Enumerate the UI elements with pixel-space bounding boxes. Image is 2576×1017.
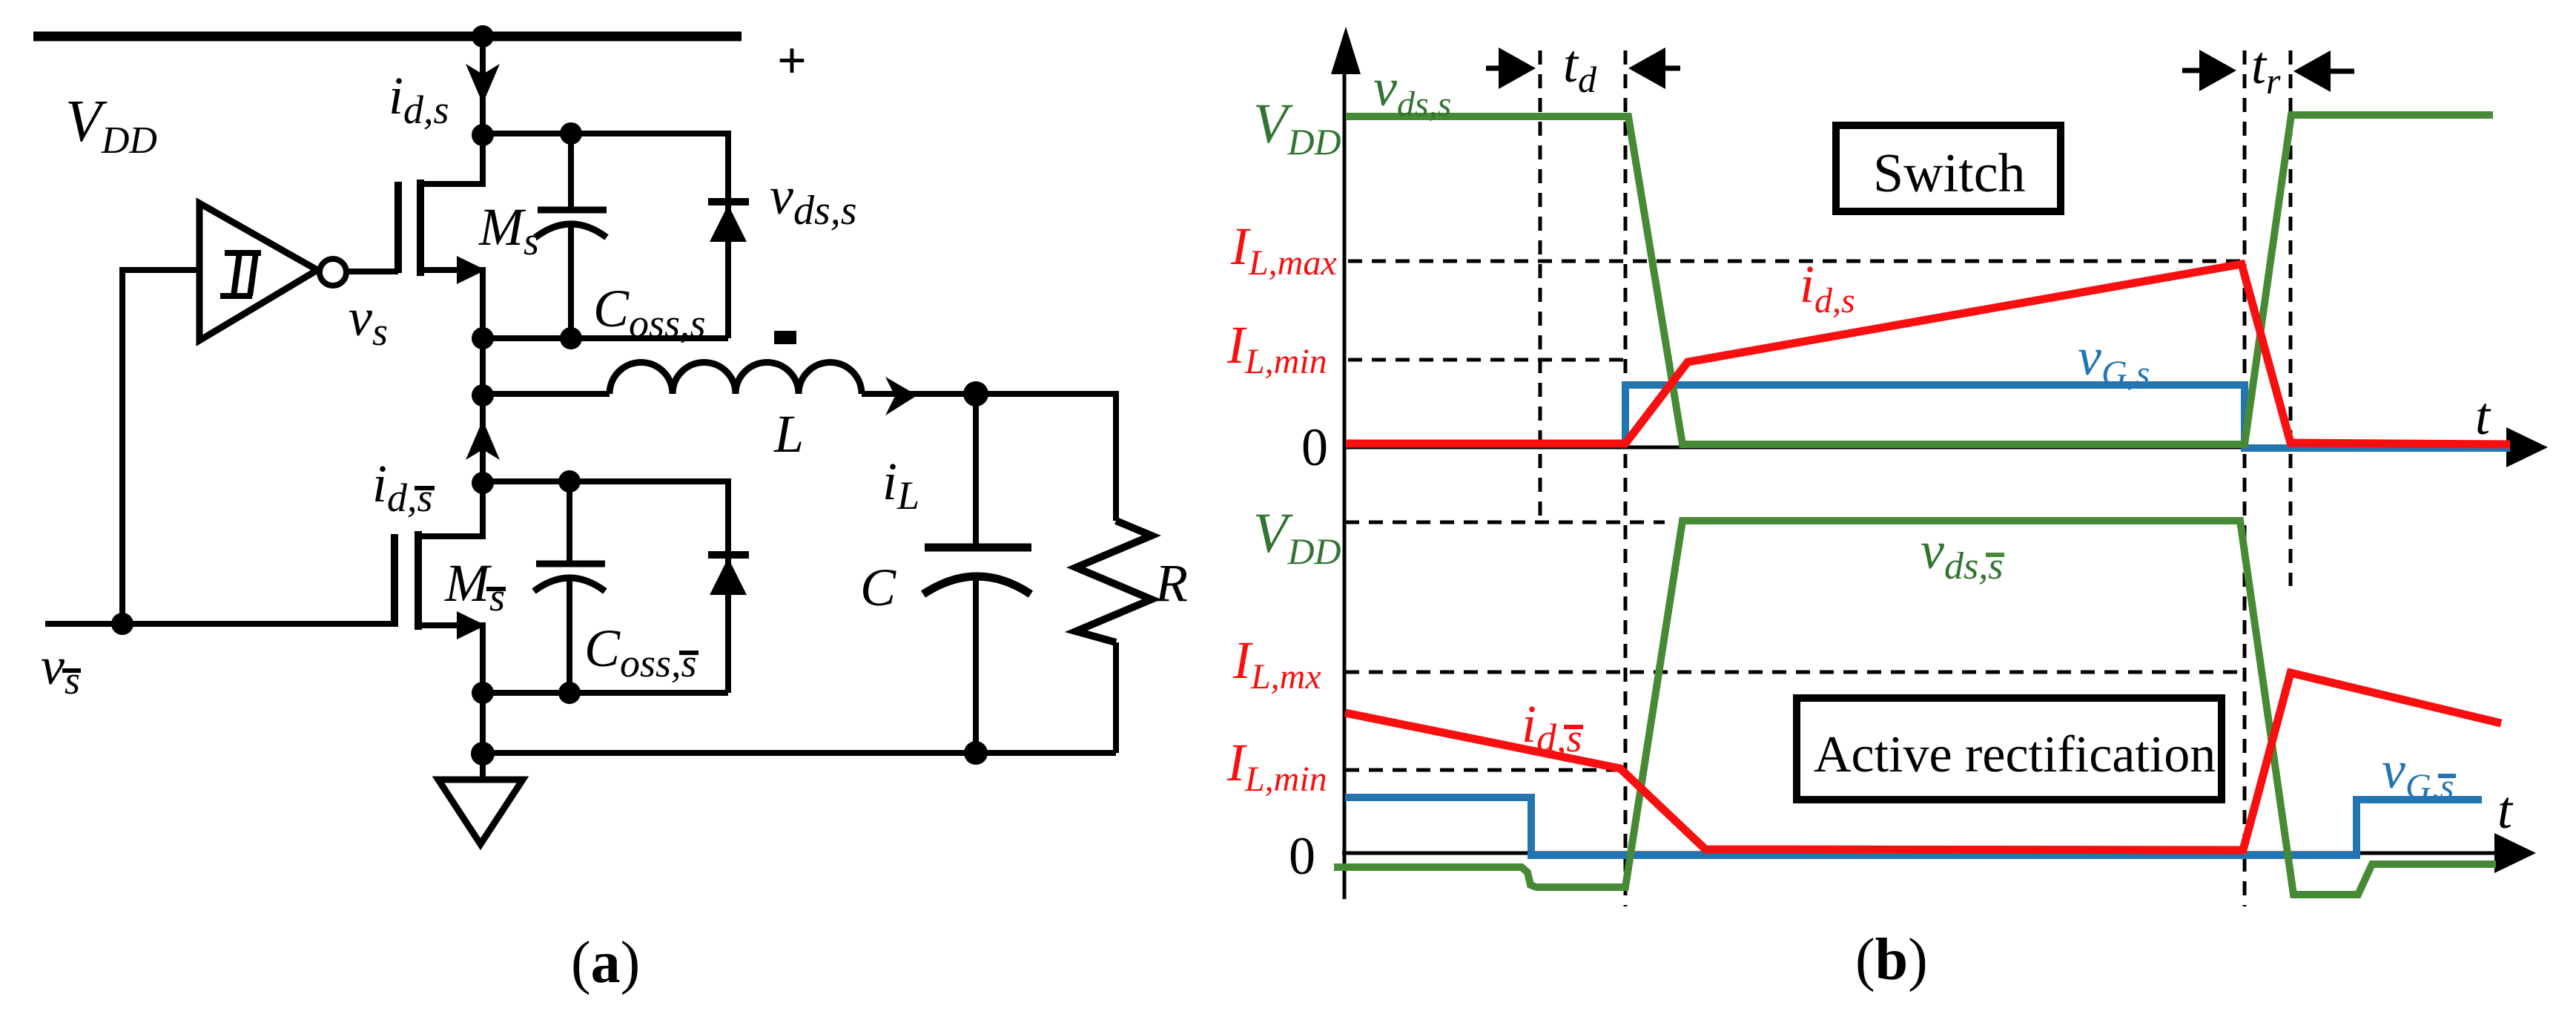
tr marker arrows [2182,70,2354,71]
overbar for C_oss,sbar [679,651,699,655]
source arrow [457,256,486,284]
current arrow i_L [885,377,917,415]
capacitor Coss,sbar [534,481,605,693]
transistor Ms [398,135,486,338]
diode body Msbar [708,481,749,693]
wire drain Msbar to snubber top [483,478,731,484]
Switch box [1836,125,2061,211]
dashed vline td start [1539,50,1542,522]
drain lead [418,483,483,536]
label - [777,334,793,341]
source arrow [457,611,486,639]
y axis [1342,41,2527,899]
node drain Msbar [472,472,494,494]
hysteresis glyph [220,253,261,296]
dashed hline IL,min top [1348,358,1629,362]
dashed vline td end [1624,50,1628,906]
svg-text:Active rectification: Active rectification [1814,726,2216,783]
wire bubble to gate [345,269,398,274]
label i_d,sbar [372,454,433,520]
dashed hline VDD bottom [1345,521,1665,524]
node output [963,381,988,407]
svg-text:Switch: Switch [1873,143,2026,204]
wire inverter input [122,270,199,624]
dashed hline IL,min bottom [1345,768,1625,772]
inverter bubble [320,259,346,286]
capacitor C [923,394,1031,753]
wire gate Msbar [45,621,394,627]
overbar for v_G,sbar [2438,774,2456,778]
node Coss,s top [560,122,582,145]
Active rectification box [1797,698,2222,800]
source lead [418,625,483,693]
t axis arrowhead bottom [2494,833,2536,873]
label C [860,558,896,617]
source lead [420,270,483,338]
t axis arrowhead top [2506,427,2548,467]
dashed guides [1345,50,2291,906]
wire Ms source to Coss bottom [483,335,728,341]
curve v_G,s (blue, top) [1625,385,2510,448]
y axis arrowhead [1331,27,1361,74]
label i_L [882,452,919,518]
label + [777,33,807,90]
op-amp U1 (Schmitt inverter) [199,203,346,340]
x axis top plot [1344,446,2527,450]
overbar for M_sbar [486,587,506,591]
svg-text:L: L [773,404,804,464]
node top rail junction [472,25,494,47]
overbar for plot i_d,sbar [1564,725,1583,729]
node vsbar junction [111,613,133,635]
label Coss,sbar [584,619,697,685]
node output bottom [964,741,988,765]
node ground junction [471,742,495,766]
dashed hline IL,max top [1348,260,2242,263]
node Coss,sbar bottom [558,682,581,704]
svg-text:t: t [2475,386,2491,446]
node Coss,sbar top [558,470,581,493]
capacitor Coss,s [535,134,607,338]
svg-text:(b): (b) [1855,927,1928,993]
curve i_d,sbar (red, bottom) [1345,673,2501,850]
curve v_G,sbar (blue, bottom) [1345,797,2482,855]
wire to ground [480,693,486,780]
caption (a) [571,930,640,995]
label L [773,404,804,464]
curve v_ds,s (green, top) [1346,115,2493,444]
label R [1155,553,1188,613]
label i_d,s [389,66,449,132]
node drain Ms [472,124,494,146]
inductor L [483,363,976,395]
dashed hline IL,mx bottom [1345,671,2240,674]
label v_ds,s [770,166,857,234]
wire drain feed vertical [480,36,486,135]
label v_s [349,288,388,354]
svg-text:R: R [1155,553,1188,613]
current arrow i_d,s (down) [466,64,500,104]
svg-text:C: C [860,558,896,617]
node Ms source [472,327,494,349]
curve v_ds,sbar (green, bottom) [1334,521,2496,895]
x axis bottom plot [1342,852,2515,855]
overbar for i_d,sbar circuit [415,486,435,490]
channel bar [415,531,422,630]
label Ms [478,197,539,263]
curve i_d,s (red, top) [1346,264,2510,444]
dashed vline tr start [2243,50,2247,906]
overbar for v_ds,sbar [1986,553,2004,557]
label v_sbar [41,636,80,702]
channel bar [417,180,424,276]
wire drain node to snubber top [483,131,731,136]
label V_DD [65,89,157,162]
node switch-inductor [472,384,494,407]
gate bar [394,182,402,273]
current arrow i_d,sbar (up) [466,420,500,460]
td marker arrows [1486,66,1680,71]
transistor Msbar [394,472,494,693]
svg-text:0: 0 [1289,826,1315,886]
gate bar [391,534,398,627]
wire switch node vertical [480,338,486,483]
node Msbar source [472,682,494,704]
drain lead [420,135,483,184]
svg-text:+: + [777,33,807,90]
wire bottom rail [483,750,1116,756]
svg-text:0: 0 [1301,418,1328,477]
svg-text:t: t [2497,780,2514,840]
label Msbar [444,553,505,619]
label Coss,s [593,279,706,346]
dashed vline tr end [2289,50,2293,586]
wire Msbar source to Coss bottom [483,690,728,696]
node Coss,s bottom [560,327,582,349]
diode body Ms [708,134,749,338]
wire VDD top rail [33,32,742,42]
svg-text:(a): (a) [571,930,640,995]
overbar for v_sbar [62,668,81,673]
ground [438,780,523,844]
resistor R [976,394,1152,753]
